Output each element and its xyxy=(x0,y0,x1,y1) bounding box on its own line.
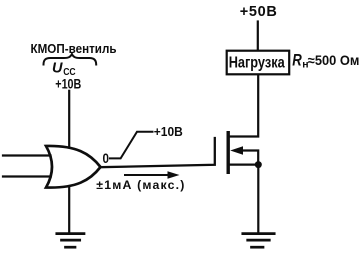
wire gate output to MOSFET gate xyxy=(101,138,215,167)
wire input 1 xyxy=(3,154,51,156)
transistor Q1 channel bar xyxy=(226,133,229,173)
svg-text:+10В: +10В xyxy=(154,124,183,139)
load box xyxy=(227,51,290,75)
svg-text:≈500 Ом: ≈500 Ом xyxy=(308,53,360,68)
OR-gate U1 xyxy=(46,146,101,188)
junction dot xyxy=(255,161,262,168)
leader line to +10V callout xyxy=(110,132,153,159)
svg-text:КМОП-вентиль: КМОП-вентиль xyxy=(31,41,117,56)
svg-text:+50В: +50В xyxy=(240,4,277,20)
source lead xyxy=(230,164,259,166)
wire +50V to load xyxy=(257,22,259,51)
svg-text:±1мА (макс.): ±1мА (макс.) xyxy=(96,178,184,192)
svg-text:R: R xyxy=(292,51,302,69)
wire supply to gate top xyxy=(68,91,70,146)
drain lead xyxy=(230,76,259,137)
body lead with arrow xyxy=(230,146,258,161)
current arrow xyxy=(125,171,180,179)
brace over Ucc xyxy=(44,54,97,65)
wire gate bottom to ground xyxy=(68,188,70,233)
label Rn ~ 500 Om xyxy=(292,51,359,70)
svg-text:Нагрузка: Нагрузка xyxy=(229,55,285,72)
ground (gate) xyxy=(57,234,84,248)
svg-text:U: U xyxy=(52,60,63,76)
svg-text:+10В: +10В xyxy=(55,76,81,92)
wire input 2 xyxy=(3,175,51,177)
wire source to ground xyxy=(257,165,259,233)
svg-text:0: 0 xyxy=(103,150,110,166)
ground (MOSFET) xyxy=(243,234,274,248)
